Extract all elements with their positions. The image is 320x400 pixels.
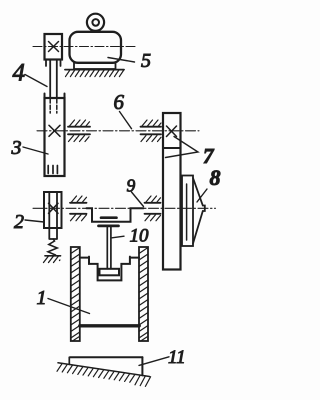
spring ground hatching [44,256,60,263]
ground line under wedge (wedge bottom) [58,363,150,377]
frame 1 bottom plate [80,324,139,327]
bearing 2 rod [49,192,57,239]
shaft centerline top (motor axis) [33,46,135,48]
trough lever 9 [87,208,144,222]
grip rod 10 T-foot [100,269,120,276]
svg-text:9: 9 [127,176,136,196]
frame 1 right wall (hatched) [139,247,148,341]
grip rod 10 top bar [99,225,119,228]
svg-text:2: 2 [14,211,24,233]
svg-text:1: 1 [37,287,47,309]
spring under rod [48,239,57,255]
motor M1 body [70,32,122,63]
bearing block (crank bearing) top-left [45,34,63,66]
upper axis left support (hatched) [68,120,90,142]
svg-text:5: 5 [141,50,151,72]
crankshaft centerline (upper axis) [37,130,199,132]
crank X mark in drum [167,126,177,137]
crank pin X mark in cylinder [49,125,60,136]
svg-text:11: 11 [168,347,186,368]
leader 10 [112,236,124,238]
motor foundation line [65,69,124,71]
leader 11 [139,357,169,366]
connecting rod (bearing to cylinder) [50,60,57,99]
svg-text:10: 10 [130,226,150,247]
leader 9 [132,192,144,207]
leader 5 [108,58,135,63]
motor foundation hatching [66,70,124,77]
wedge anvil 11 [69,357,142,375]
motor M1 ring bolt [87,14,104,31]
specimen bar inside trough [101,216,117,219]
svg-text:6: 6 [114,90,125,114]
upper axis right support (hatched) [141,120,162,142]
ground hatching under wedge [57,363,151,386]
frame 1 top ledges [80,257,139,259]
leader 2 [25,220,44,222]
leaders 7 [166,137,199,158]
leader 6 [120,112,132,129]
bearing 2 X mark [49,203,59,213]
spring ground line [45,255,61,257]
frame 1 left wall (hatched) [71,247,80,341]
cone pulley 8 plate [182,176,193,247]
svg-text:4: 4 [13,60,26,87]
drum hub divider [163,147,181,149]
svg-text:8: 8 [210,165,221,190]
cone pulley 8 cone [193,178,205,244]
lower axis centerline [33,207,216,209]
lower axis right support (hatched) [145,196,161,221]
flywheel / drum 7 [163,113,181,270]
cylinder 3 (slider body) [45,98,65,176]
rod hidden inside cylinder (dashed) [50,99,57,113]
frame 1 T-slot pocket [89,257,130,281]
leader 1 [48,299,90,314]
grip rod 10 stem [107,227,111,269]
guide bearing 2 housing [44,192,62,228]
hidden rod end dashes at cylinder bottom [48,166,57,174]
motor base plate [74,63,116,69]
leader 8 [197,189,207,202]
svg-text:3: 3 [11,137,22,159]
lower axis left support (hatched) [70,196,87,221]
leader 4 [25,75,47,87]
leader 3 [23,147,48,154]
